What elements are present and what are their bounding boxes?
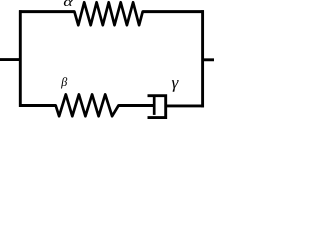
damper gamma piston plate (153, 95, 156, 115)
label beta (61, 77, 67, 88)
wire bottom-left segment (19, 104, 56, 107)
spring beta (bottom branch) (56, 94, 119, 116)
spring alpha (top branch) (74, 2, 142, 25)
damper gamma cylinder (148, 96, 166, 118)
wire spring-to-damper (piston rod) (119, 104, 155, 107)
label alpha (64, 0, 73, 6)
left vertical bus wire (19, 10, 22, 107)
right vertical bus wire (201, 10, 204, 107)
right lead wire (203, 58, 214, 61)
wire top-right segment (143, 10, 204, 13)
wire damper-to-right segment (166, 104, 204, 107)
label gamma (172, 80, 179, 92)
left lead wire (0, 58, 20, 61)
wire top-left segment (19, 10, 75, 13)
